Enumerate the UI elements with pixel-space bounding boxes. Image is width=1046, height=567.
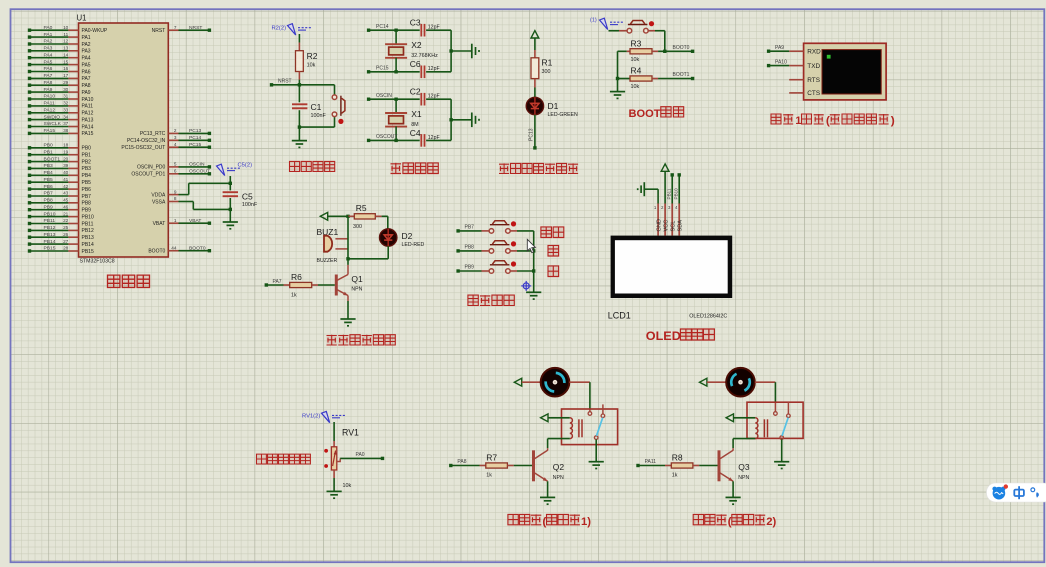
wire OSCOUT horizontal — [369, 139, 420, 141]
svg-text:PC13: PC13 — [528, 128, 534, 141]
net label PB7 — [456, 229, 459, 232]
svg-text:10k: 10k — [343, 483, 352, 489]
svg-text:PA0: PA0 — [356, 452, 365, 458]
relay switch blade (cyan) — [782, 418, 788, 436]
ground below RV1 — [327, 490, 342, 492]
wire R5 to D2 — [382, 215, 388, 217]
wire reset button branch vertical — [334, 85, 336, 95]
svg-text:D1: D1 — [548, 101, 559, 111]
svg-text:GND: GND — [656, 219, 662, 231]
svg-text:C4: C4 — [410, 128, 421, 138]
origin marker (blue crosshair) — [521, 281, 531, 291]
capacitor C1 100nF — [292, 103, 307, 105]
svg-text:D2: D2 — [402, 231, 413, 241]
relay label — [693, 514, 703, 524]
indicator label 程序运行指示灯 — [499, 163, 509, 173]
IME toolbar panel — [987, 483, 1046, 502]
wire NRST node to C1 — [298, 85, 300, 103]
svg-text:OSCIN: OSCIN — [376, 93, 392, 99]
svg-text:SWCLK: SWCLK — [44, 121, 62, 127]
svg-text:SCL: SCL — [670, 221, 676, 232]
svg-text:100nF: 100nF — [242, 202, 258, 208]
svg-text:PA7: PA7 — [44, 73, 53, 79]
wire R4 rail to ground — [617, 79, 619, 92]
capacitor C5 vertical wire — [229, 176, 231, 190]
svg-text:U1: U1 — [77, 14, 87, 23]
wire PC15 horizontal — [369, 71, 420, 73]
svg-text:PB11: PB11 — [44, 218, 56, 224]
svg-text:PB10: PB10 — [674, 188, 679, 200]
svg-text:PB11: PB11 — [667, 188, 672, 199]
svg-text:(1): (1) — [590, 18, 597, 24]
chip pin PA4 (14) net PA4 wire — [30, 57, 69, 59]
wire Q3 emitter to ground — [732, 481, 734, 497]
svg-text:OSCOUT_PD1: OSCOUT_PD1 — [131, 172, 165, 178]
svg-text:Q3: Q3 — [738, 462, 750, 472]
wire Q2 emitter to ground — [547, 481, 549, 497]
chip pin PA14 (37) net SWCLK wire — [30, 126, 69, 128]
svg-text:CTS: CTS — [807, 90, 820, 97]
svg-text:12: 12 — [63, 39, 69, 44]
wire right rail of X1 — [450, 99, 452, 140]
push button key PB8 — [489, 249, 494, 254]
wire OLED GND pin — [644, 188, 658, 190]
svg-text:17: 17 — [63, 73, 69, 78]
resistor R8 1k — [636, 464, 639, 467]
wire C1 to ground — [298, 127, 300, 140]
svg-text:PA1: PA1 — [44, 32, 53, 38]
LED D1 LED-GREEN — [526, 97, 543, 114]
net label PB9 — [456, 269, 459, 272]
chip pin PB6 (42) net PB6 wire — [30, 188, 69, 190]
crystal circuit label 晶振电路 — [391, 163, 402, 174]
svg-text:PA9: PA9 — [775, 45, 784, 51]
wire key PB9 to bus — [510, 270, 517, 272]
mouse cursor — [527, 239, 535, 252]
svg-text:LED-RED: LED-RED — [402, 242, 425, 248]
chip pin PA8 (29) net PA8 wire — [30, 84, 69, 86]
svg-text:BOOT1: BOOT1 — [44, 156, 61, 162]
svg-text:R1: R1 — [542, 57, 553, 67]
svg-text:PC14-OSC32_IN: PC14-OSC32_IN — [127, 138, 166, 144]
capacitor C2 12pF — [420, 93, 422, 106]
ground (rotated) of X2 — [471, 44, 473, 59]
svg-text:C5: C5 — [242, 192, 253, 202]
potentiometer RV1 interaction dots — [324, 449, 328, 453]
svg-text:PB15: PB15 — [82, 249, 94, 255]
svg-text:RV1: RV1 — [342, 428, 359, 438]
resistor R6 1k — [265, 283, 268, 286]
svg-text:RV1(2): RV1(2) — [302, 413, 320, 419]
svg-text:PB4: PB4 — [44, 170, 54, 176]
svg-text:PA12: PA12 — [44, 108, 56, 114]
svg-text:LED-GREEN: LED-GREEN — [548, 112, 579, 118]
ground below key bus — [526, 291, 541, 293]
svg-text:PA14: PA14 — [82, 124, 94, 130]
wire R3 left rail down — [617, 51, 619, 78]
chip pin PB15 (28) net PB15 wire — [30, 250, 69, 252]
node junction R4 left — [616, 77, 619, 80]
wire OLED SDA net PB10 — [678, 173, 681, 176]
svg-text:PA10: PA10 — [82, 97, 94, 103]
svg-text:PB10: PB10 — [44, 211, 56, 217]
svg-text:PB13: PB13 — [44, 232, 56, 238]
svg-text:300: 300 — [353, 224, 362, 230]
chip pin PB3 (39) net PB3 wire — [30, 167, 69, 169]
net label OSCIN — [367, 98, 370, 101]
svg-text:X1: X1 — [411, 109, 422, 119]
chip pin PB13 (26) net PB13 wire — [30, 236, 69, 238]
wire power arrow to node — [328, 215, 348, 217]
svg-text:19: 19 — [63, 149, 69, 154]
svg-text:BOOT: BOOT — [629, 108, 661, 120]
chip pin PB10 (21) net PB10 wire — [30, 216, 69, 218]
svg-text:PA8: PA8 — [82, 83, 91, 89]
net label PC15 — [367, 70, 370, 73]
svg-text:NPN: NPN — [553, 475, 564, 481]
svg-text:PB0: PB0 — [44, 143, 54, 149]
svg-text:BOOT0: BOOT0 — [673, 45, 690, 51]
svg-text:3: 3 — [174, 135, 177, 140]
ground below C5 — [223, 221, 238, 223]
chip pin PC13_RTC (2) net PC13 wire — [168, 132, 178, 134]
chip pin PC15-OSC32_OUT (4) net PC15 wire — [168, 146, 178, 148]
chip pin PA7 (17) net PA7 wire — [30, 77, 69, 79]
svg-text:26: 26 — [63, 232, 69, 237]
reset push button (vertical) — [332, 95, 337, 100]
chip pin PC14-OSC32_IN (3) net PC14 wire — [168, 139, 178, 141]
wire right rail of X2 — [450, 30, 452, 72]
svg-text:44: 44 — [171, 245, 177, 250]
svg-text:R8: R8 — [672, 452, 683, 462]
chip pin VBAT (1) net VBAT wire — [168, 222, 178, 224]
wire bottom horizontal to reset button — [299, 126, 334, 128]
motor right pin wire — [755, 381, 776, 383]
svg-text:PB1: PB1 — [44, 149, 54, 155]
transistor Q2 NPN — [532, 450, 535, 481]
net label NRST at reset circuit — [270, 83, 273, 86]
svg-text:33: 33 — [63, 108, 69, 113]
chip pin NRST (7) net NRST wire — [168, 29, 178, 31]
wire relay coil to Q2 collector — [548, 438, 570, 440]
node junction bus/PB8 — [532, 249, 535, 252]
svg-text:300: 300 — [542, 69, 551, 75]
chip pin PB1 (19) net PB1 wire — [30, 154, 69, 156]
relay label — [508, 514, 518, 524]
wire to ground of X1 — [451, 119, 471, 121]
wire key PB7 to bus — [510, 230, 517, 232]
svg-text:11: 11 — [63, 32, 68, 37]
svg-text:PB12: PB12 — [82, 228, 94, 234]
svg-text:13: 13 — [63, 46, 69, 51]
svg-text:42: 42 — [63, 184, 69, 189]
ground below BOOT divider — [610, 91, 625, 93]
node junction PC15/crystal X2 — [394, 70, 397, 73]
svg-text:PB3: PB3 — [82, 166, 92, 172]
chip pin PA15 (38) net PA15 wire — [30, 132, 69, 134]
chip pin BOOT0 (44) net BOOT0 wire — [168, 250, 178, 252]
ground below relay switch — [774, 461, 789, 463]
chip pin PB9 (46) net PB9 wire — [30, 209, 69, 211]
svg-text:8: 8 — [174, 196, 177, 201]
svg-text:PA5: PA5 — [82, 62, 91, 68]
terminal pin RXD — [789, 50, 803, 52]
svg-text:1k: 1k — [291, 293, 297, 299]
key label 设置 — [541, 227, 552, 238]
svg-text:Q1: Q1 — [351, 274, 363, 284]
svg-text:32: 32 — [63, 101, 69, 106]
svg-text:32.768KHz: 32.768KHz — [411, 53, 438, 59]
transistor Q1 NPN — [335, 275, 338, 296]
OLED display LCD1 body — [611, 236, 733, 298]
svg-text:BOOT1: BOOT1 — [673, 72, 690, 78]
svg-text:C5(2): C5(2) — [238, 163, 253, 169]
wire arrow to relay coil — [548, 417, 570, 419]
capacitor C5 100nF — [223, 191, 238, 193]
svg-text:100nF: 100nF — [311, 113, 327, 119]
wire BOOT button to corner — [648, 30, 655, 32]
wire PB8 to key — [458, 250, 481, 252]
svg-text:C1: C1 — [311, 102, 322, 112]
wire actuator to R2 — [298, 34, 300, 43]
net label PB8 — [456, 249, 459, 252]
node junction OSCIN/crystal X1 — [394, 98, 397, 101]
svg-text:34: 34 — [63, 114, 69, 119]
capacitor C3 12pF — [420, 24, 422, 37]
svg-text:NRST: NRST — [189, 25, 202, 31]
svg-text:15: 15 — [63, 59, 69, 64]
svg-text:(: ( — [826, 115, 830, 127]
wire arrow to relay coil — [734, 417, 756, 419]
capacitor C4 12pF — [420, 134, 422, 147]
motor/atomizer pin wire left — [522, 381, 541, 383]
terminal cursor green square — [827, 55, 831, 59]
chip pin PB7 (43) net PB7 wire — [30, 195, 69, 197]
svg-text:20: 20 — [63, 156, 69, 161]
reset circuit label 复位电路 — [290, 161, 300, 171]
chip pin VDDA (9) wire to C5 — [168, 194, 178, 196]
chip pin PA10 (31) net PA10 wire — [30, 98, 69, 100]
main chip U1 body STM32F103C8 — [79, 23, 169, 257]
svg-text:PA4: PA4 — [44, 52, 53, 58]
virtual terminal body (serial window) — [804, 43, 887, 100]
node PC13 endpoint dot — [533, 146, 536, 149]
chip pin PA12 (33) net PA12 wire — [30, 112, 69, 114]
chip pin VSSA (8) wire to C5 — [168, 201, 178, 203]
crystal X2 32.768KHz — [395, 30, 397, 44]
wire supply rail through buzzer pins — [347, 216, 349, 258]
ground (rotated) at OLED GND — [643, 182, 645, 196]
svg-text:R6: R6 — [291, 272, 302, 282]
svg-text:22: 22 — [63, 218, 69, 223]
svg-text:PA7: PA7 — [82, 76, 91, 82]
IME bear icon — [992, 487, 996, 491]
net label PC14 — [367, 29, 370, 32]
svg-text:5: 5 — [174, 162, 177, 167]
node junction OSCOUT/crystal X1 — [394, 139, 397, 142]
wire C4 to right rail — [426, 139, 451, 141]
wire relay coil to Q3 collector — [733, 438, 755, 440]
svg-text:25: 25 — [63, 225, 69, 230]
resistor R1 300 — [534, 50, 536, 58]
svg-text:PA6: PA6 — [44, 66, 53, 72]
ground below C1 — [292, 140, 307, 142]
svg-text:PB3: PB3 — [44, 163, 54, 169]
svg-text:1): 1) — [581, 516, 591, 528]
wire PB9 to key — [458, 270, 481, 272]
svg-text:10: 10 — [63, 25, 69, 30]
svg-text:OSCOUT: OSCOUT — [376, 134, 397, 140]
wire R2 to NRST node — [298, 80, 300, 85]
svg-text:R5: R5 — [356, 203, 367, 213]
svg-text:PB2: PB2 — [82, 159, 92, 165]
svg-text:43: 43 — [63, 191, 69, 196]
svg-text:X2: X2 — [411, 40, 422, 50]
svg-text:BOOT0: BOOT0 — [189, 245, 206, 251]
svg-text:PA3: PA3 — [44, 46, 53, 52]
svg-text:PB8: PB8 — [465, 245, 475, 251]
wire NRST horizontal — [272, 84, 335, 86]
svg-text:PB6: PB6 — [44, 184, 54, 190]
svg-text:PB7: PB7 — [82, 194, 92, 200]
relay coil power arrow — [726, 414, 733, 422]
svg-text:): ) — [891, 115, 895, 127]
BOOT push button — [627, 28, 632, 33]
svg-text:39: 39 — [63, 163, 69, 168]
svg-text:18: 18 — [63, 143, 69, 148]
svg-text:C2: C2 — [410, 87, 421, 97]
svg-text:PC15-OSC32_OUT: PC15-OSC32_OUT — [121, 145, 165, 151]
resistor R3 10k — [618, 50, 627, 52]
svg-text:PB5: PB5 — [82, 180, 92, 186]
wire C2 to right rail — [426, 98, 451, 100]
svg-text:VSSA: VSSA — [152, 199, 166, 205]
wire relay common to ground — [781, 439, 783, 461]
svg-text:PB6: PB6 — [82, 187, 92, 193]
svg-text:VBAT: VBAT — [189, 218, 201, 224]
svg-text:PC13_RTC: PC13_RTC — [140, 131, 166, 137]
svg-text:R3: R3 — [631, 38, 642, 48]
relay coil — [755, 418, 758, 439]
wire PB7 to key — [458, 230, 481, 232]
potentiometer label 粉尘值调节 — [257, 454, 267, 464]
resistor R4 10k — [618, 78, 631, 80]
motor/atomizer (fan) near Q2 — [541, 368, 570, 397]
wire to ground of X2 — [451, 50, 471, 52]
chip pin PA3 (13) net PA3 wire — [30, 50, 69, 52]
svg-text:1: 1 — [174, 218, 177, 223]
svg-text:PA4: PA4 — [82, 56, 91, 62]
svg-text:SDA: SDA — [677, 220, 683, 232]
key label 减 — [548, 266, 559, 277]
chip pin PA5 (15) net PA5 wire — [30, 64, 69, 66]
svg-text:NPN: NPN — [738, 475, 749, 481]
relay coil — [570, 418, 573, 439]
svg-text:LCD1: LCD1 — [608, 311, 631, 321]
svg-text:C3: C3 — [410, 18, 421, 28]
node junction PC14/crystal X2 — [394, 29, 397, 32]
svg-text:46: 46 — [63, 204, 69, 209]
wire to BOOT0 label — [665, 50, 693, 52]
IME 中 icon — [1014, 486, 1024, 499]
resistor R2 10k — [298, 43, 300, 51]
svg-text:PB9: PB9 — [44, 204, 54, 210]
svg-text:OSCIN_PD0: OSCIN_PD0 — [137, 165, 166, 171]
svg-text:PA13: PA13 — [82, 117, 94, 123]
svg-text:PA8: PA8 — [44, 80, 53, 86]
keys label 独立按键 — [468, 295, 478, 305]
wire power to R1 — [534, 38, 536, 50]
chip pin PA11 (32) net PA11 wire — [30, 105, 69, 107]
power terminal arrow at OLED VCC — [661, 164, 669, 171]
svg-text:PA2: PA2 — [82, 42, 91, 48]
svg-text:PA5: PA5 — [44, 59, 53, 65]
wire C1 to bottom node — [298, 110, 300, 127]
chip pin PA2 (12) net PA2 wire — [30, 43, 69, 45]
wire OLED SCL net PB11 — [671, 173, 674, 176]
svg-text:PA0: PA0 — [44, 25, 53, 31]
wire D1 to PC13 node — [534, 115, 536, 148]
svg-text:R2(2): R2(2) — [272, 26, 287, 32]
node junction bus/PB9 — [532, 269, 535, 272]
svg-text:2: 2 — [174, 128, 177, 133]
wire collector node down to Q1 — [347, 259, 349, 265]
wire actuator to BOOT button — [609, 30, 620, 32]
svg-text:PB14: PB14 — [44, 239, 56, 245]
ground below relay switch — [589, 461, 604, 463]
svg-text:VBAT: VBAT — [153, 221, 166, 227]
push button key PB9 — [489, 269, 494, 274]
chip pin PB4 (40) net PB4 wire — [30, 174, 69, 176]
chip pin PB5 (41) net PB5 wire — [30, 181, 69, 183]
IME third icon (partial) — [1031, 488, 1039, 498]
svg-text:PA11: PA11 — [44, 101, 56, 107]
chip pin PB11 (22) net PB11 wire — [30, 223, 69, 225]
svg-text:RTS: RTS — [807, 77, 820, 84]
node junction rail/X1 ground stub — [449, 118, 452, 121]
terminal pin RTS — [789, 79, 803, 81]
wire key PB8 to bus — [510, 250, 517, 252]
wire relay common to ground — [595, 439, 597, 461]
svg-text:31: 31 — [63, 94, 69, 99]
svg-text:PA10: PA10 — [44, 94, 56, 100]
wire C6 to right rail — [426, 71, 451, 73]
node junction R5/BUZ1 supply — [346, 215, 349, 218]
svg-text:PA15: PA15 — [82, 131, 94, 137]
wire PC14 horizontal — [369, 29, 420, 31]
node junction NRST/C1 — [298, 83, 301, 86]
svg-text:21: 21 — [63, 211, 69, 216]
main chip label 主芯片 — [108, 275, 120, 287]
svg-text:9: 9 — [174, 189, 177, 194]
relay switch contacts — [588, 412, 592, 416]
wire OLED VCC pin — [664, 171, 666, 203]
svg-text:VDDA: VDDA — [151, 192, 166, 198]
ground below Q1 — [340, 318, 355, 320]
svg-text:41: 41 — [63, 177, 69, 182]
chip pin PA9 (30) net PA9 wire — [30, 91, 69, 93]
svg-text:1k: 1k — [672, 473, 678, 479]
relay R7 box — [562, 409, 618, 445]
node junction collector/D2/BUZ1 — [346, 257, 349, 260]
svg-text:PB8: PB8 — [82, 201, 92, 207]
svg-text:PB9: PB9 — [465, 265, 475, 271]
svg-text:PA2: PA2 — [44, 39, 53, 45]
svg-text:NPN: NPN — [351, 286, 362, 292]
svg-text:RXD: RXD — [807, 48, 821, 55]
serial window label 串口1窗口（模拟手机端） — [771, 114, 781, 124]
potentiometer RV1 10k — [333, 441, 335, 447]
